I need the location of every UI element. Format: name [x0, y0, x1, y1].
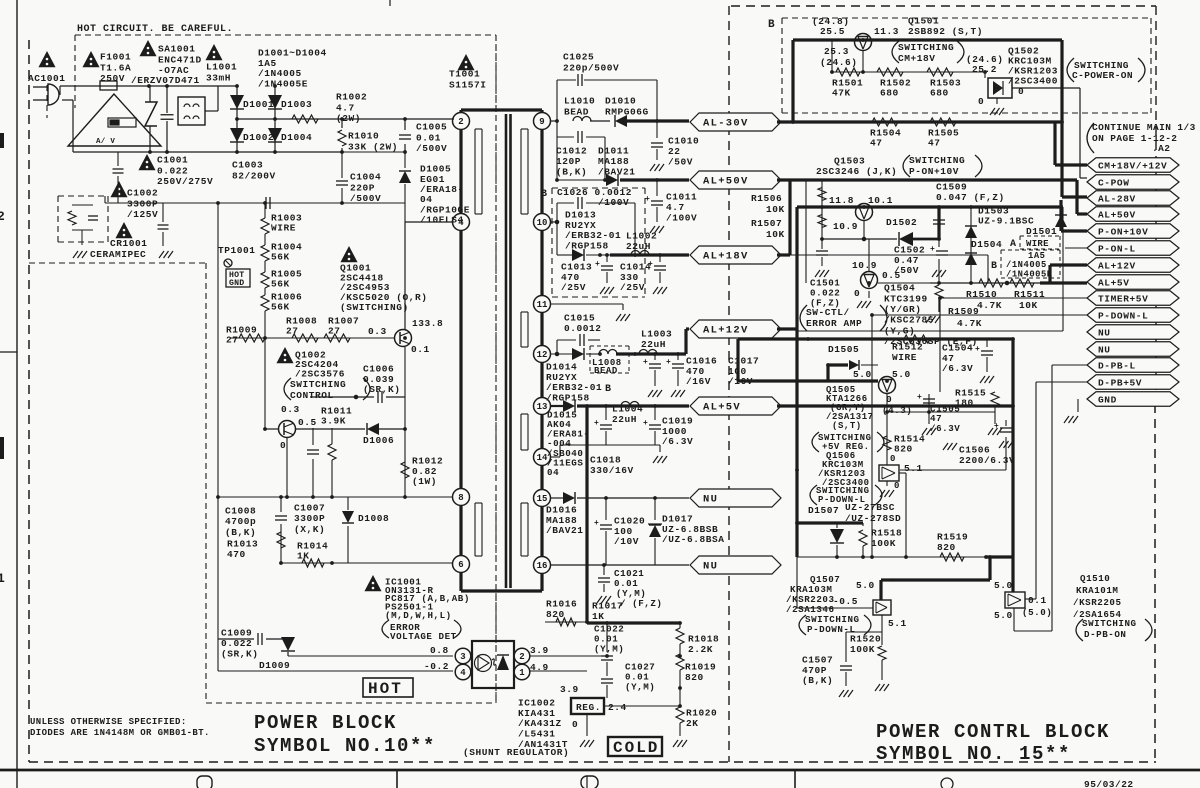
svg-text:SWITCHING: SWITCHING	[1082, 618, 1137, 629]
svg-text:AL+12V: AL+12V	[1098, 260, 1136, 271]
svg-text:+: +	[645, 195, 650, 204]
svg-text:/BAV21: /BAV21	[598, 167, 636, 178]
svg-text:2SB892 (S,T): 2SB892 (S,T)	[908, 26, 983, 37]
svg-text:11: 11	[537, 300, 548, 310]
svg-text:A: A	[1010, 239, 1016, 250]
svg-text:SW-CTL/: SW-CTL/	[806, 307, 850, 318]
svg-text:0.01: 0.01	[416, 132, 441, 143]
svg-text:C1002: C1002	[127, 188, 158, 199]
svg-text:+: +	[595, 260, 600, 269]
svg-text:(B,K): (B,K)	[556, 167, 587, 178]
svg-text:0.3: 0.3	[281, 404, 300, 415]
svg-text:(SHUNT REGULATOR): (SHUNT REGULATOR)	[463, 747, 569, 758]
svg-text:C1001: C1001	[157, 155, 188, 166]
svg-text:C1012: C1012	[556, 146, 587, 157]
svg-text:680: 680	[930, 88, 949, 99]
svg-text:120P: 120P	[556, 156, 581, 167]
svg-text:(SR,K): (SR,K)	[221, 648, 259, 659]
svg-text:AL+12V: AL+12V	[703, 325, 749, 337]
svg-text:0: 0	[978, 96, 984, 107]
svg-text:95/03/22: 95/03/22	[1084, 779, 1134, 788]
svg-text:AL-28V: AL-28V	[1098, 193, 1136, 204]
svg-text:4700p: 4700p	[225, 516, 256, 527]
svg-text:/100V: /100V	[666, 213, 697, 224]
svg-text:Q1504: Q1504	[884, 283, 915, 294]
svg-text:(X,K): (X,K)	[294, 524, 325, 535]
svg-text:(24.6): (24.6)	[820, 57, 858, 68]
svg-text:10K: 10K	[766, 229, 785, 240]
svg-text:4.7K: 4.7K	[957, 318, 982, 329]
svg-text:13: 13	[537, 402, 548, 412]
svg-text:0: 0	[280, 440, 286, 451]
svg-text:680: 680	[880, 88, 899, 99]
svg-text:/UZ-6.8BSA: /UZ-6.8BSA	[662, 534, 725, 545]
svg-text:/RGP158: /RGP158	[565, 241, 609, 252]
svg-text:15: 15	[537, 494, 548, 504]
svg-text:+: +	[594, 519, 599, 528]
svg-text:8: 8	[458, 493, 463, 503]
svg-text:REG.: REG.	[576, 702, 601, 713]
svg-text:(Y,M): (Y,M)	[594, 643, 624, 654]
svg-text:NU: NU	[703, 561, 718, 573]
svg-text:820: 820	[937, 542, 956, 553]
svg-text:/10V: /10V	[614, 536, 639, 547]
svg-text:4.7: 4.7	[336, 102, 355, 113]
svg-text:ENC471D: ENC471D	[158, 54, 202, 65]
svg-text:VOLTAGE DET: VOLTAGE DET	[390, 631, 457, 642]
svg-text:+: +	[994, 422, 999, 431]
svg-text:NU: NU	[1098, 344, 1111, 355]
svg-text:D1501: D1501	[1026, 226, 1057, 237]
svg-text:82/200V: 82/200V	[232, 170, 276, 181]
svg-text:AL-30V: AL-30V	[703, 118, 749, 130]
svg-text:B: B	[768, 19, 775, 31]
svg-text:820: 820	[894, 444, 913, 455]
svg-text:11.3: 11.3	[874, 26, 899, 37]
svg-text:T1.6A: T1.6A	[100, 62, 131, 73]
svg-text:/100V: /100V	[598, 197, 629, 208]
svg-text:A/ V: A/ V	[96, 138, 115, 146]
svg-text:SA1001: SA1001	[158, 44, 196, 55]
svg-text:3300P: 3300P	[294, 513, 325, 524]
svg-text:(2W): (2W)	[336, 113, 361, 124]
svg-text:TIMER+5V: TIMER+5V	[1098, 293, 1148, 304]
svg-text:/1N4005E: /1N4005E	[1006, 269, 1053, 279]
svg-text:D1004: D1004	[281, 132, 312, 143]
svg-text:+: +	[975, 345, 980, 354]
svg-text:C1009: C1009	[221, 628, 252, 639]
svg-text:D1505: D1505	[828, 344, 859, 355]
svg-text:0.047 (F,Z): 0.047 (F,Z)	[936, 192, 1005, 203]
svg-text:47: 47	[928, 138, 941, 149]
svg-text:22uH: 22uH	[612, 414, 637, 425]
svg-text:C1007: C1007	[294, 503, 325, 514]
svg-text:/6.3V: /6.3V	[930, 423, 960, 434]
svg-text:CR1001: CR1001	[110, 238, 148, 249]
svg-text:(Y/GR): (Y/GR)	[884, 304, 922, 315]
svg-text:22: 22	[668, 146, 681, 157]
svg-text:10.9: 10.9	[833, 221, 858, 232]
svg-text:C1010: C1010	[668, 136, 699, 147]
svg-text:470: 470	[227, 549, 246, 560]
svg-text:D1002: D1002	[243, 132, 274, 143]
svg-text:NU: NU	[1098, 327, 1111, 338]
svg-text:/6.3V: /6.3V	[942, 363, 973, 374]
svg-text:2.4: 2.4	[608, 702, 627, 713]
svg-text:33K (2W): 33K (2W)	[348, 141, 398, 152]
svg-text:C-POW: C-POW	[1098, 177, 1130, 188]
svg-text:/10ELS4: /10ELS4	[420, 215, 464, 226]
svg-text:+: +	[666, 358, 671, 367]
svg-text:100K: 100K	[850, 644, 875, 655]
svg-text:F1001: F1001	[100, 52, 131, 63]
svg-text:GND: GND	[229, 279, 244, 288]
svg-text:D1006: D1006	[363, 435, 394, 446]
svg-text:1: 1	[0, 571, 5, 586]
svg-text:10.1: 10.1	[868, 195, 893, 206]
svg-text:0.0012: 0.0012	[564, 323, 602, 334]
svg-text:10K: 10K	[766, 204, 785, 215]
svg-text:0: 0	[854, 288, 860, 299]
svg-text:D1011: D1011	[598, 146, 629, 157]
svg-text:UZ-27BSC: UZ-27BSC	[845, 502, 895, 513]
svg-text:0.1: 0.1	[411, 344, 430, 355]
svg-text:820: 820	[546, 609, 565, 620]
svg-text:NU: NU	[703, 494, 718, 506]
svg-text:ERROR AMP: ERROR AMP	[806, 318, 862, 329]
svg-text:TP1001: TP1001	[218, 245, 256, 256]
svg-text:WIRE: WIRE	[892, 352, 917, 363]
svg-text:0.5: 0.5	[298, 417, 317, 428]
svg-text:10.9: 10.9	[852, 260, 877, 271]
svg-text:D1504: D1504	[971, 239, 1002, 250]
svg-text:D1008: D1008	[358, 513, 389, 524]
svg-text:2: 2	[0, 209, 5, 224]
svg-text:(Y,M): (Y,M)	[625, 681, 655, 692]
svg-text:C1025: C1025	[563, 52, 594, 63]
svg-text:3.9: 3.9	[530, 645, 549, 656]
svg-text:T1001: T1001	[449, 69, 480, 80]
svg-text:133.8: 133.8	[412, 318, 443, 329]
svg-text:/25V: /25V	[620, 282, 645, 293]
svg-text:/1N4005E: /1N4005E	[258, 79, 308, 90]
svg-text:AL+50V: AL+50V	[703, 176, 749, 188]
svg-text:5.0: 5.0	[994, 580, 1013, 591]
svg-text:AL+18V: AL+18V	[703, 251, 749, 263]
svg-text:S1157I: S1157I	[449, 79, 487, 90]
svg-text:D1003: D1003	[281, 99, 312, 110]
svg-text:D-PB-L: D-PB-L	[1098, 360, 1136, 371]
svg-text:AL+50V: AL+50V	[1098, 209, 1136, 220]
svg-text:SYMBOL NO. 15**: SYMBOL NO. 15**	[876, 743, 1071, 765]
svg-text:5.0: 5.0	[853, 369, 872, 380]
svg-text:0: 0	[894, 481, 900, 491]
svg-text:+: +	[643, 358, 648, 367]
svg-text:5.1: 5.1	[888, 618, 907, 629]
svg-text:CM+18V: CM+18V	[898, 53, 936, 64]
svg-text:SWITCHING: SWITCHING	[290, 379, 346, 390]
svg-text:CONTROL: CONTROL	[290, 390, 334, 401]
svg-text:/BAV21: /BAV21	[546, 525, 584, 536]
svg-text:DIODES ARE 1N4148M OR GMB01-BT: DIODES ARE 1N4148M OR GMB01-BT.	[30, 728, 210, 738]
svg-text:(1W): (1W)	[412, 476, 437, 487]
svg-text:SWITCHING: SWITCHING	[909, 155, 965, 166]
svg-text:UNLESS OTHERWISE SPECIFIED:: UNLESS OTHERWISE SPECIFIED:	[30, 717, 187, 727]
svg-text:GND: GND	[1098, 394, 1117, 405]
svg-text:2K: 2K	[686, 718, 699, 729]
svg-text:56K: 56K	[271, 279, 290, 290]
svg-text:C1011: C1011	[666, 192, 697, 203]
svg-text:/25V: /25V	[561, 282, 586, 293]
svg-text:D-PB+5V: D-PB+5V	[1098, 377, 1142, 388]
svg-text:Q1503: Q1503	[834, 156, 865, 167]
svg-text:250V/275V: 250V/275V	[157, 176, 213, 187]
svg-text:R1010: R1010	[348, 131, 379, 142]
svg-text:POWER CONTRL BLOCK: POWER CONTRL BLOCK	[876, 721, 1110, 743]
svg-text:0.022: 0.022	[157, 165, 188, 176]
svg-text:P-ON+10V: P-ON+10V	[909, 166, 959, 177]
svg-text:B: B	[605, 384, 611, 395]
svg-text:2200/6.3V: 2200/6.3V	[959, 455, 1015, 466]
svg-text:56K: 56K	[271, 302, 290, 313]
svg-text:R1506: R1506	[751, 193, 782, 204]
svg-text:4.7K: 4.7K	[977, 300, 1002, 311]
svg-text:(B,K): (B,K)	[802, 675, 833, 686]
svg-text:R1507: R1507	[751, 218, 782, 229]
svg-text:/500V: /500V	[416, 143, 447, 154]
svg-text:KRA101M: KRA101M	[1076, 585, 1118, 596]
svg-text:MA188: MA188	[598, 156, 629, 167]
svg-text:C1008: C1008	[225, 506, 256, 517]
svg-text:47: 47	[870, 138, 883, 149]
svg-text:C1005: C1005	[416, 122, 447, 133]
svg-text:POWER BLOCK: POWER BLOCK	[254, 712, 397, 734]
svg-text:HOT CIRCUIT. BE CAREFUL.: HOT CIRCUIT. BE CAREFUL.	[77, 24, 233, 35]
svg-text:C1004: C1004	[350, 172, 381, 183]
svg-text:CERAMIPEC: CERAMIPEC	[90, 249, 146, 260]
svg-text:3300P: 3300P	[127, 198, 158, 209]
svg-text:4.7: 4.7	[666, 202, 685, 213]
svg-text:47K: 47K	[832, 88, 851, 99]
svg-text:25.5: 25.5	[820, 26, 845, 37]
svg-text:C1003: C1003	[232, 160, 263, 171]
svg-text:1K: 1K	[592, 611, 605, 622]
svg-text:P-ON-L: P-ON-L	[1098, 243, 1136, 254]
svg-text:/RGP158: /RGP158	[546, 393, 590, 404]
svg-text:0: 0	[572, 719, 578, 730]
svg-text:L1010: L1010	[564, 96, 595, 107]
svg-text:CONTINUE MAIN 1/3: CONTINUE MAIN 1/3	[1092, 122, 1196, 133]
svg-text:0.3: 0.3	[368, 326, 387, 337]
svg-text:3.9K: 3.9K	[321, 416, 346, 427]
svg-text:5.0: 5.0	[892, 369, 911, 380]
svg-text:.A2: .A2	[1152, 143, 1170, 154]
svg-text:33mH: 33mH	[206, 72, 231, 83]
svg-text:B: B	[991, 261, 997, 272]
svg-text:220P: 220P	[350, 182, 375, 193]
svg-text:220p/500V: 220p/500V	[563, 62, 619, 73]
svg-text:4: 4	[460, 668, 466, 678]
svg-text:820: 820	[685, 672, 704, 683]
svg-text:D1507: D1507	[808, 505, 839, 516]
svg-text:/2SC3576: /2SC3576	[295, 368, 345, 379]
svg-text:100K: 100K	[871, 538, 896, 549]
svg-text:D-PB-ON: D-PB-ON	[1084, 629, 1126, 640]
svg-text:5.1: 5.1	[904, 463, 923, 474]
svg-text:AL+5V: AL+5V	[1098, 277, 1130, 288]
svg-text:/KSC2785: /KSC2785	[884, 315, 934, 326]
svg-text:1: 1	[519, 668, 525, 678]
svg-text:16: 16	[537, 561, 548, 571]
svg-text:10K: 10K	[1019, 300, 1038, 311]
svg-text:BEAD: BEAD	[594, 366, 618, 376]
svg-text:22uH: 22uH	[626, 241, 651, 252]
svg-text:/50V: /50V	[668, 157, 693, 168]
svg-text:2SC3246 (J,K): 2SC3246 (J,K)	[816, 166, 897, 177]
svg-text:11.8: 11.8	[829, 195, 854, 206]
svg-text:AC1001: AC1001	[28, 73, 66, 84]
svg-text:+: +	[930, 245, 935, 254]
svg-text:0.8: 0.8	[430, 645, 449, 656]
svg-text:22uH: 22uH	[641, 339, 666, 350]
svg-text:2: 2	[519, 652, 524, 662]
svg-text:KTC3199: KTC3199	[884, 293, 928, 304]
svg-text:Q1510: Q1510	[1080, 573, 1110, 584]
svg-text:5.0: 5.0	[994, 610, 1013, 621]
svg-text:3: 3	[460, 652, 465, 662]
svg-text:D1010: D1010	[605, 96, 636, 107]
svg-text:0.5: 0.5	[882, 270, 901, 281]
svg-text:P-ON+10V: P-ON+10V	[1098, 226, 1148, 237]
svg-text:/6.3V: /6.3V	[662, 436, 693, 447]
svg-text:/2SC3400: /2SC3400	[1008, 76, 1058, 87]
svg-text:CM+18V/+12V: CM+18V/+12V	[1098, 160, 1167, 171]
svg-text:R1013: R1013	[227, 539, 258, 550]
svg-text:25.3: 25.3	[824, 46, 849, 57]
svg-text:0.022: 0.022	[221, 638, 252, 649]
svg-text:R1002: R1002	[336, 92, 367, 103]
svg-text:(S,T): (S,T)	[832, 421, 862, 431]
svg-text:AL+5V: AL+5V	[703, 402, 741, 414]
svg-text:+: +	[594, 419, 599, 428]
svg-text:-0.2: -0.2	[424, 661, 449, 672]
svg-text:SYMBOL NO.10**: SYMBOL NO.10**	[254, 735, 436, 757]
svg-text:0.1: 0.1	[1028, 595, 1047, 606]
svg-text:250V: 250V	[100, 73, 125, 84]
svg-text:/125V: /125V	[127, 209, 158, 220]
svg-text:+: +	[643, 419, 648, 428]
svg-text:L1001: L1001	[206, 62, 237, 73]
svg-text:/KSR2205: /KSR2205	[1073, 597, 1122, 608]
svg-text:27: 27	[328, 326, 341, 337]
svg-text:3.9: 3.9	[560, 684, 579, 695]
svg-text:SWITCHING: SWITCHING	[898, 42, 954, 53]
svg-text:(M,D,W,H,L): (M,D,W,H,L)	[385, 610, 452, 621]
svg-text:9: 9	[539, 117, 544, 127]
svg-text:27: 27	[226, 335, 239, 346]
svg-text:5.0: 5.0	[856, 580, 875, 591]
svg-text:D1009: D1009	[259, 660, 290, 671]
svg-text:+: +	[917, 393, 922, 402]
svg-text:WIRE: WIRE	[271, 223, 296, 234]
svg-text:27: 27	[286, 326, 299, 337]
svg-text:10: 10	[537, 218, 548, 228]
svg-text:UZ-9.1BSC: UZ-9.1BSC	[978, 216, 1034, 227]
svg-text:C-POWER-ON: C-POWER-ON	[1072, 70, 1133, 81]
svg-text:/ERZV07D471: /ERZV07D471	[131, 75, 200, 86]
svg-text:D1502: D1502	[886, 217, 917, 228]
svg-text:6: 6	[458, 560, 463, 570]
svg-text:P-DOWN-L: P-DOWN-L	[807, 624, 856, 635]
svg-text:D1001: D1001	[243, 99, 274, 110]
svg-text:/ (F,Z): / (F,Z)	[620, 598, 662, 609]
svg-text:HOT: HOT	[368, 680, 403, 698]
svg-text:WIRE: WIRE	[1026, 239, 1049, 249]
svg-text:12: 12	[537, 350, 548, 360]
svg-text:BEAD: BEAD	[564, 106, 589, 117]
svg-text:(SWITCHING): (SWITCHING)	[340, 302, 409, 313]
svg-text:0: 0	[890, 454, 896, 464]
svg-text:56K: 56K	[271, 252, 290, 263]
svg-text:330/16V: 330/16V	[590, 465, 634, 476]
svg-text:(5.0): (5.0)	[1022, 607, 1052, 618]
svg-text:COLD: COLD	[613, 739, 659, 757]
svg-text:/16V: /16V	[686, 376, 711, 387]
svg-text:2: 2	[458, 117, 463, 127]
svg-text:04: 04	[547, 467, 559, 478]
svg-text:2.2K: 2.2K	[688, 644, 713, 655]
svg-text:(B,K): (B,K)	[225, 527, 256, 538]
svg-text:P-DOWN-L: P-DOWN-L	[1098, 310, 1148, 321]
svg-text:-0.5: -0.5	[833, 596, 858, 607]
